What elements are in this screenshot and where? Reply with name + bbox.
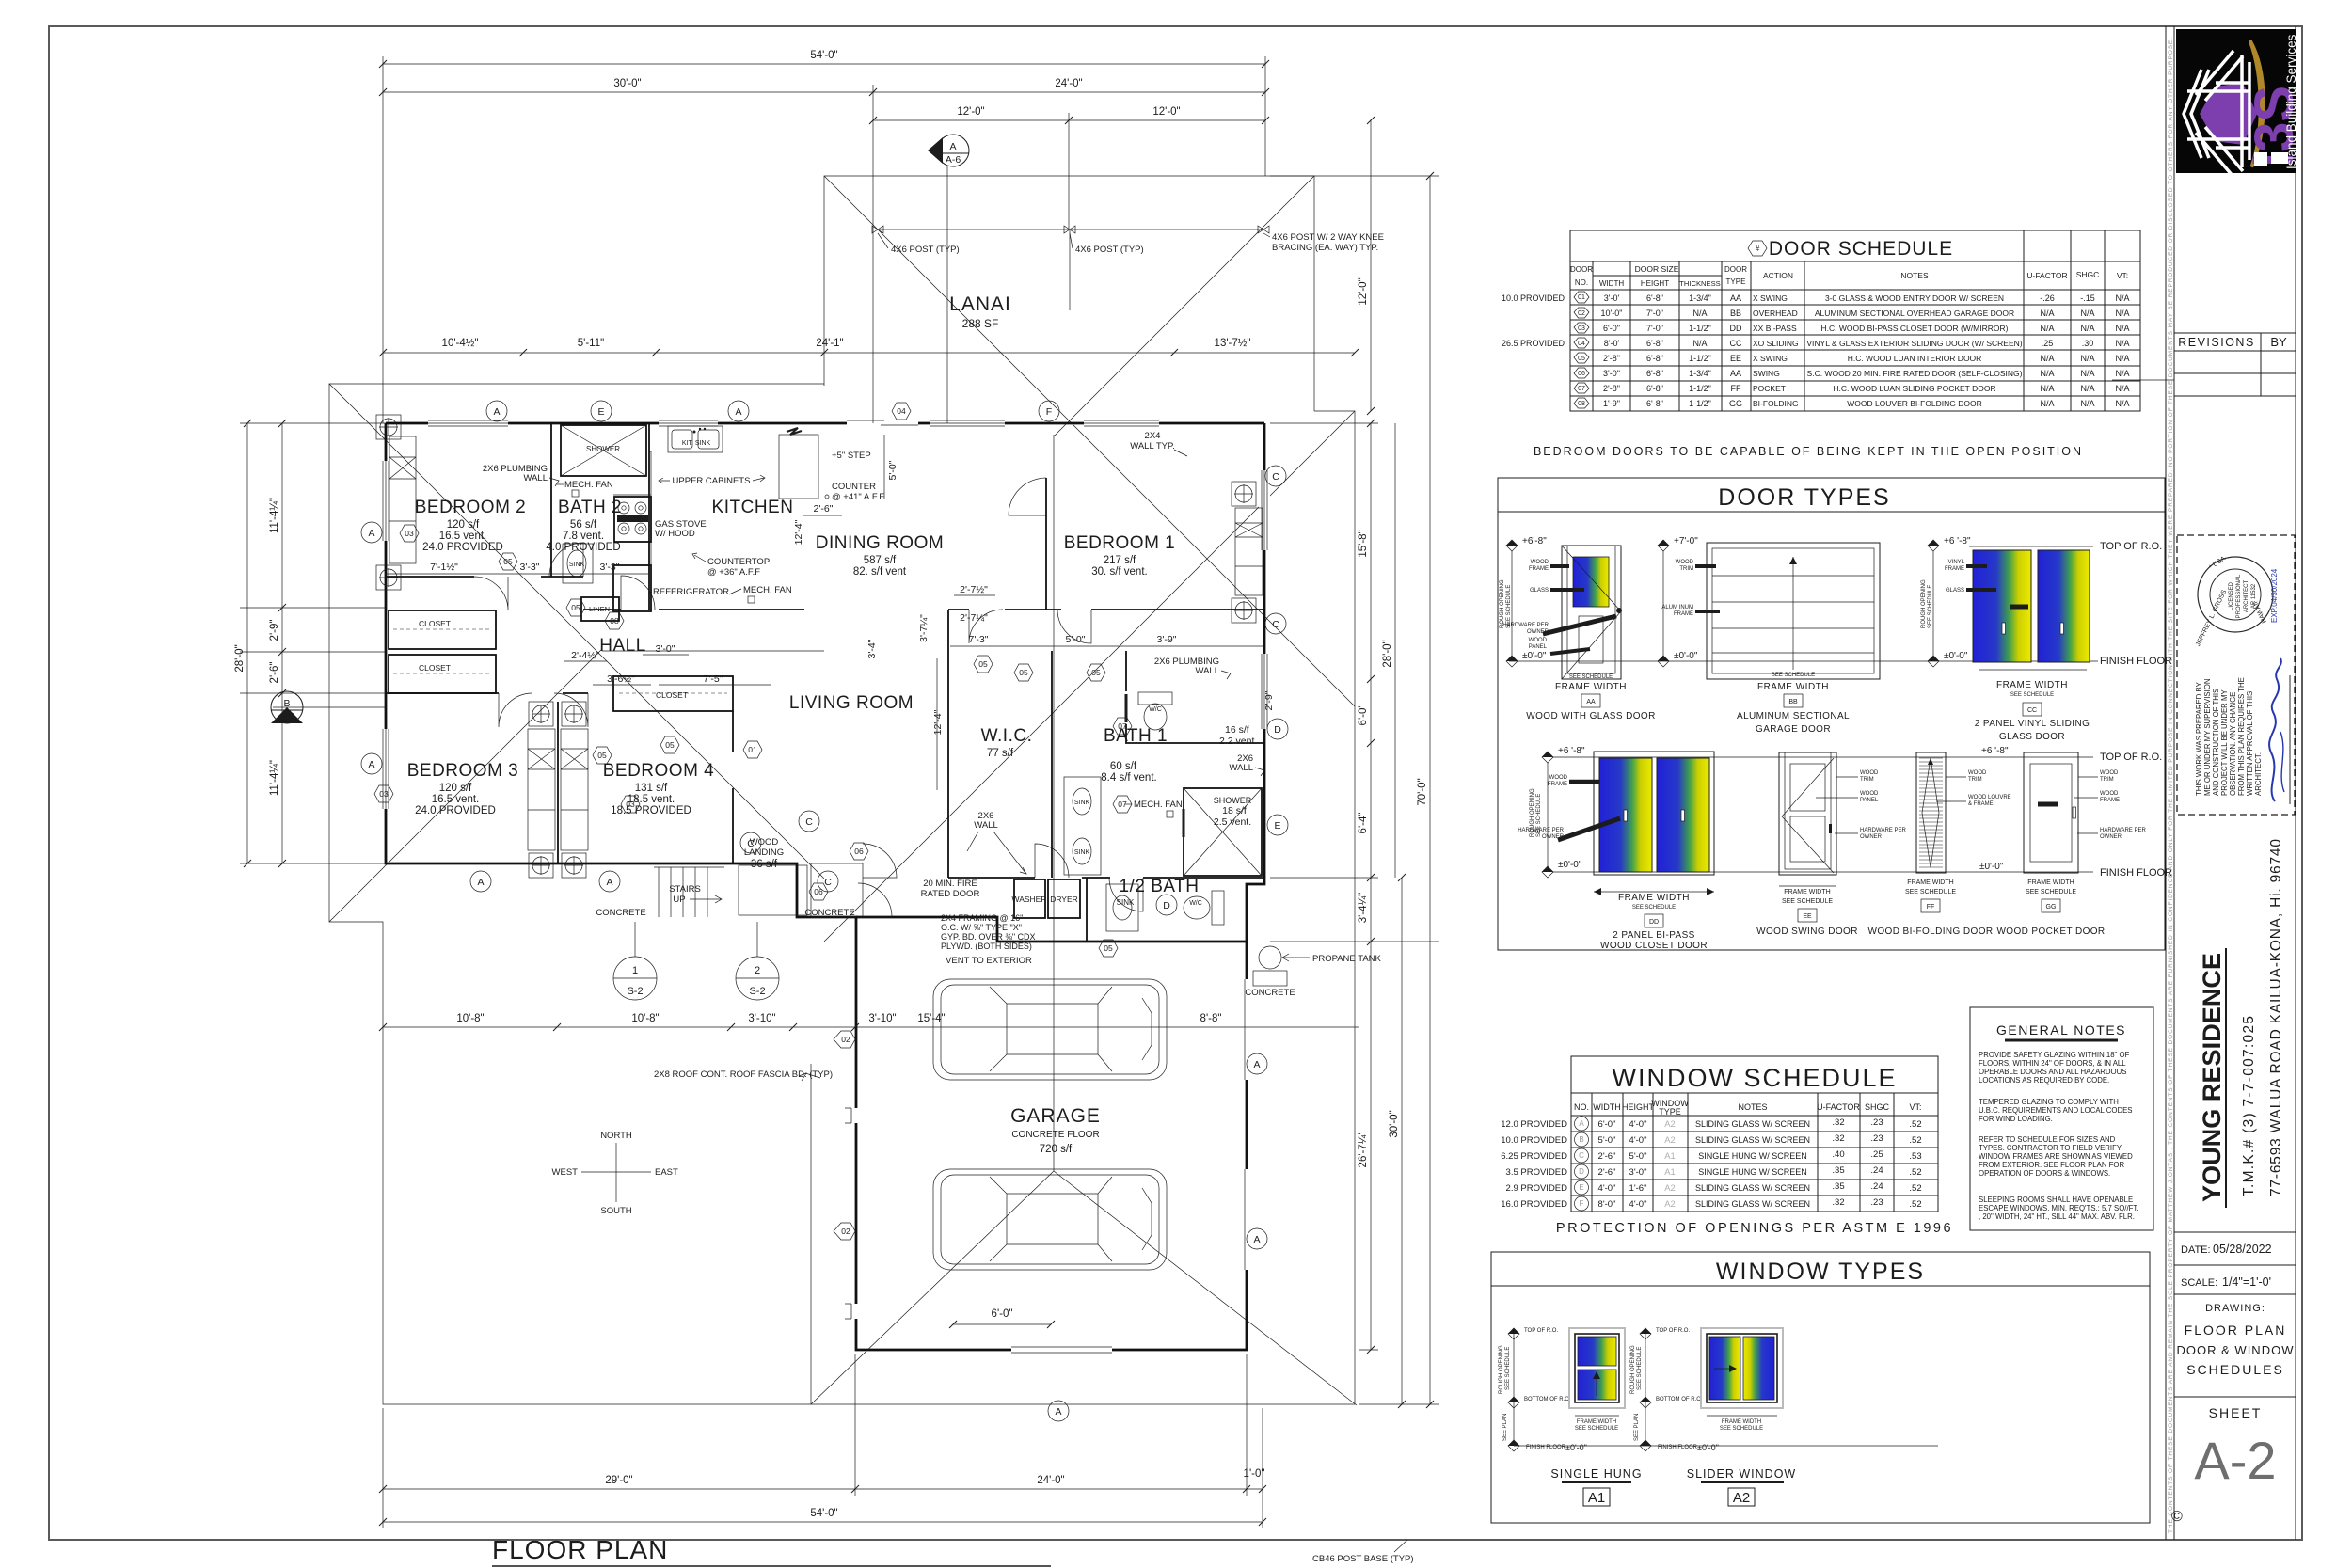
svg-text:MECH. FAN: MECH. FAN	[743, 585, 792, 595]
svg-text:C: C	[824, 877, 832, 888]
bath1 shower	[1184, 788, 1262, 876]
markers garage	[1247, 1053, 1267, 1074]
svg-text:.25: .25	[1870, 1149, 1883, 1160]
svg-text:GARAGE: GARAGE	[1010, 1105, 1101, 1127]
svg-text:W/C: W/C	[1189, 900, 1202, 907]
svg-text:6'-0": 6'-0"	[992, 1308, 1013, 1320]
svg-text:3'-10": 3'-10"	[748, 1013, 775, 1024]
svg-text:30'-0": 30'-0"	[613, 78, 641, 89]
svg-text:ESCAPE WINDOWS. MIN. REQ'TS.:: ESCAPE WINDOWS. MIN. REQ'TS.: 5.7 SQ//FT…	[1979, 1204, 2138, 1212]
hall south wall	[386, 692, 588, 694]
markers right side	[1265, 466, 1286, 486]
svg-text:SINGLE HUNG W/ SCREEN: SINGLE HUNG W/ SCREEN	[1698, 1151, 1807, 1161]
top of RO datum line row2	[1552, 756, 2093, 758]
svg-text:E: E	[1274, 820, 1280, 832]
svg-text:HEIGHT: HEIGHT	[1622, 1102, 1655, 1112]
svg-text:7'-1½": 7'-1½"	[430, 562, 458, 573]
svg-text:2 PANEL VINYL SLIDING: 2 PANEL VINYL SLIDING	[1975, 719, 2090, 729]
bath1 dim row	[950, 645, 1264, 647]
svg-text:LIVING ROOM: LIVING ROOM	[789, 693, 914, 713]
svg-text:02: 02	[1578, 310, 1585, 317]
BR4 bed symbol	[561, 729, 588, 850]
svg-text:HARDWARE PER: HARDWARE PER	[2100, 828, 2146, 833]
svg-text:54'-0": 54'-0"	[810, 50, 837, 61]
svg-text:8'-0': 8'-0'	[1604, 339, 1620, 348]
svg-text:A: A	[1253, 1234, 1260, 1245]
svg-text:2X4 FRAMING @ 16": 2X4 FRAMING @ 16"	[941, 913, 1023, 923]
svg-text:3-0 GLASS & WOOD ENTRY DOOR W/: 3-0 GLASS & WOOD ENTRY DOOR W/ SCREEN	[1825, 293, 2004, 303]
svg-text:6'-8": 6'-8"	[1646, 369, 1663, 378]
svg-text:E: E	[597, 406, 604, 418]
svg-text:SHGC: SHGC	[2076, 270, 2100, 279]
svg-text:, 20" WIDTH, 24" HT., SILL 44": , 20" WIDTH, 24" HT., SILL 44" MAX. ABV.…	[1979, 1212, 2135, 1221]
svg-text:WINDOW FRAMES ARE SHOWN AS VIE: WINDOW FRAMES ARE SHOWN AS VIEWED	[1979, 1152, 2133, 1161]
svg-text:DOOR: DOOR	[1570, 265, 1593, 274]
door type CC 2 panel vinyl sliding glass door	[1921, 536, 2172, 742]
svg-text:ROUGH OPENING: ROUGH OPENING	[1499, 1345, 1504, 1394]
interior wall Bath2/Kitchen	[648, 423, 650, 610]
svg-text:U-FACTOR: U-FACTOR	[1817, 1102, 1860, 1112]
hall north wall	[386, 576, 583, 578]
svg-text:12'-4": 12'-4"	[932, 709, 944, 735]
svg-text:ALUMINUM SECTIONAL: ALUMINUM SECTIONAL	[1737, 711, 1850, 721]
svg-text:SLIDING GLASS W/ SCREEN: SLIDING GLASS W/ SCREEN	[1695, 1199, 1810, 1209]
svg-text:A: A	[368, 759, 374, 770]
svg-text:3'-0": 3'-0"	[1603, 369, 1620, 378]
svg-text:15'-4": 15'-4"	[917, 1013, 945, 1024]
left dimension lines	[246, 423, 248, 863]
svg-text:GG: GG	[1729, 399, 1742, 408]
svg-text:PROPANE TANK: PROPANE TANK	[1312, 954, 1382, 964]
svg-text:N/A: N/A	[2080, 384, 2094, 393]
svg-text:CC: CC	[2027, 707, 2037, 714]
door arc laundry	[1035, 844, 1069, 878]
svg-text:SLEEPING ROOMS SHALL HAVE OPEN: SLEEPING ROOMS SHALL HAVE OPENABLE	[1979, 1196, 2133, 1204]
svg-text:WOOD: WOOD	[1860, 770, 1879, 776]
svg-text:STAIRS: STAIRS	[669, 884, 701, 895]
propane tank	[1259, 946, 1281, 969]
svg-text:SHEET: SHEET	[2209, 1405, 2263, 1420]
svg-text:FROM THIS PLAN REQUIRES THE: FROM THIS PLAN REQUIRES THE	[2237, 677, 2246, 796]
svg-text:BATH 1: BATH 1	[1104, 726, 1168, 746]
svg-text:6'-8": 6'-8"	[1646, 293, 1663, 303]
svg-text:NO.: NO.	[1574, 1102, 1589, 1112]
bottom dimension rows	[383, 1026, 1359, 1028]
svg-text:.52: .52	[1909, 1199, 1921, 1210]
svg-text:2'-6": 2'-6"	[1598, 1151, 1616, 1162]
svg-text:+7'-0": +7'-0"	[1674, 536, 1698, 546]
svg-text:SINK: SINK	[1074, 849, 1090, 856]
svg-text:05: 05	[597, 751, 607, 760]
svg-text:05: 05	[1091, 668, 1101, 677]
svg-text:& FRAME: & FRAME	[1968, 801, 1994, 807]
section marker B/A-6 left	[273, 706, 386, 708]
svg-text:YOUNG RESIDENCE: YOUNG RESIDENCE	[2198, 953, 2226, 1202]
svg-text:1'-6": 1'-6"	[1629, 1183, 1647, 1194]
door arc WIC	[969, 610, 1003, 643]
svg-text:U-FACTOR: U-FACTOR	[2026, 271, 2067, 280]
door schedule table frame	[1570, 230, 2140, 411]
svg-text:KIT. SINK: KIT. SINK	[682, 440, 711, 447]
svg-text:16.0 PROVIDED: 16.0 PROVIDED	[1501, 1199, 1567, 1210]
svg-text:10'-8": 10'-8"	[456, 1013, 484, 1024]
svg-text:N/A: N/A	[2040, 369, 2054, 378]
svg-text:SEE SCHEDULE: SEE SCHEDULE	[1575, 1426, 1618, 1432]
svg-text:1/4"=1'-0': 1/4"=1'-0'	[2222, 1275, 2271, 1289]
svg-text:OBSERVATION. ANY CHANGE: OBSERVATION. ANY CHANGE	[2229, 692, 2237, 796]
DOOR SCHEDULE panel	[1502, 230, 2140, 458]
svg-text:F: F	[1580, 1199, 1584, 1208]
svg-text:OPERATION OF DOORS & WINDOWS.: OPERATION OF DOORS & WINDOWS.	[1979, 1169, 2110, 1178]
kitchen/hall south wall	[583, 609, 804, 610]
svg-text:FF: FF	[1731, 384, 1741, 393]
svg-text:OWNER: OWNER	[1860, 834, 1883, 840]
svg-text:N/A: N/A	[2040, 354, 2054, 363]
svg-text:N/A: N/A	[2115, 384, 2129, 393]
svg-text:4'-0": 4'-0"	[1629, 1119, 1647, 1130]
general notes box	[1970, 1007, 2153, 1230]
svg-text:TOP OF R.O.: TOP OF R.O.	[1656, 1328, 1690, 1334]
kitchen sink	[668, 426, 723, 452]
svg-text:BEDROOM 2: BEDROOM 2	[415, 498, 527, 517]
svg-text:LINEN: LINEN	[589, 605, 610, 613]
svg-text:DD: DD	[1730, 324, 1742, 333]
svg-text:±0'-0": ±0'-0"	[1522, 651, 1547, 661]
svg-text:6'-4": 6'-4"	[1358, 813, 1369, 834]
svg-text:ROUGH OPENING: ROUGH OPENING	[1630, 1345, 1636, 1394]
svg-text:10'-0": 10'-0"	[1601, 309, 1623, 318]
svg-text:.35: .35	[1832, 1165, 1844, 1176]
svg-text:SLIDING GLASS W/ SCREEN: SLIDING GLASS W/ SCREEN	[1695, 1135, 1810, 1145]
bath1 sinks counter	[1064, 777, 1101, 875]
roof valley diagonal NW	[329, 384, 824, 879]
svg-text:PANEL: PANEL	[1529, 644, 1548, 650]
wall grid markers left/bottom	[361, 522, 382, 543]
window type A1 single hung	[1499, 1328, 1643, 1506]
svg-text:7'-5": 7'-5"	[704, 673, 723, 685]
svg-text:29'-0": 29'-0"	[605, 1475, 632, 1486]
svg-text:FROM EXTERIOR. SEE FLOOR PLAN: FROM EXTERIOR. SEE FLOOR PLAN FOR	[1979, 1161, 2124, 1169]
svg-text:77-6593 WALUA ROAD KAILUA-KO: 77-6593 WALUA ROAD KAILUA-KONA, Hi. 9674…	[2268, 839, 2284, 1196]
svg-text:WASHER: WASHER	[1012, 895, 1047, 904]
bath2 shower	[561, 425, 646, 476]
svg-text:HARDWARE PER: HARDWARE PER	[1502, 623, 1549, 628]
window openings top wall	[428, 418, 508, 429]
svg-text:FINISH FLOOR: FINISH FLOOR	[1658, 1445, 1698, 1450]
svg-text:FRAME WIDTH: FRAME WIDTH	[1577, 1419, 1616, 1425]
svg-text:SWING: SWING	[1753, 369, 1780, 378]
svg-text:.32: .32	[1832, 1133, 1844, 1144]
svg-text:28'-0": 28'-0"	[1382, 640, 1393, 667]
svg-text:EE: EE	[1803, 913, 1812, 920]
svg-text:3'-3": 3'-3"	[520, 562, 540, 573]
svg-text:2'-9": 2'-9"	[1263, 690, 1275, 710]
svg-text:TRIM: TRIM	[1968, 777, 1982, 783]
svg-text:08: 08	[1578, 401, 1585, 407]
roof valley from lanai	[824, 176, 1355, 706]
prepared-by statement rotated	[2195, 677, 2263, 796]
svg-text:TEMPERED GLAZING TO COMPLY WIT: TEMPERED GLAZING TO COMPLY WITH	[1979, 1098, 2119, 1106]
svg-text:SHOWER: SHOWER	[1214, 796, 1252, 805]
svg-text:A: A	[368, 528, 374, 539]
svg-text:FLOOR PLAN: FLOOR PLAN	[2185, 1323, 2287, 1338]
door schedule rows	[1570, 304, 2140, 306]
svg-text:2X8 ROOF CONT. ROOF FASCIA BD.: 2X8 ROOF CONT. ROOF FASCIA BD. (TYP)	[654, 1069, 833, 1080]
svg-text:@ +36" A.F.F: @ +36" A.F.F	[707, 567, 760, 578]
svg-text:1-3/4": 1-3/4"	[1689, 369, 1711, 378]
door arc BR2	[474, 577, 508, 610]
svg-text:1-1/2": 1-1/2"	[1689, 399, 1711, 408]
main ridge vertical	[1053, 435, 1055, 1171]
garage car 2	[933, 1169, 1167, 1270]
svg-text:SINGLE HUNG W/ SCREEN: SINGLE HUNG W/ SCREEN	[1698, 1167, 1807, 1177]
svg-text:UP: UP	[673, 895, 685, 905]
door arc bath1	[1057, 610, 1091, 643]
svg-text:3'-7¼": 3'-7¼"	[918, 614, 930, 642]
half bath toilet	[1212, 891, 1224, 925]
architect stamp dashed box	[2177, 535, 2295, 815]
svg-text:Island Building Services: Island Building Services	[2284, 34, 2298, 169]
svg-text:5'-0": 5'-0"	[1598, 1135, 1616, 1146]
svg-text:N/A: N/A	[1692, 339, 1707, 348]
wall grid markers top	[486, 401, 507, 421]
svg-text:2.5 vent.: 2.5 vent.	[1214, 816, 1251, 828]
svg-text:VENT TO EXTERIOR: VENT TO EXTERIOR	[946, 956, 1032, 966]
svg-text:W/C: W/C	[1149, 706, 1162, 713]
svg-text:2'-7¼": 2'-7¼"	[960, 612, 988, 624]
svg-text:05: 05	[1104, 943, 1113, 953]
svg-text:.53: .53	[1909, 1151, 1921, 1162]
svg-text:WOOD BI-FOLDING DOOR: WOOD BI-FOLDING DOOR	[1868, 927, 1994, 937]
svg-text:WOOD CLOSET DOOR: WOOD CLOSET DOOR	[1600, 941, 1708, 951]
svg-text:BOTTOM OF R.O.: BOTTOM OF R.O.	[1656, 1397, 1703, 1402]
svg-text:AA: AA	[1730, 293, 1741, 303]
svg-text:26.5 PROVIDED: 26.5 PROVIDED	[1502, 339, 1565, 348]
svg-text:ALUMINUM SECTIONAL OVERHEAD GA: ALUMINUM SECTIONAL OVERHEAD GARAGE DOOR	[1815, 309, 2014, 318]
half bath sink	[1106, 884, 1138, 931]
svg-text:6'-8": 6'-8"	[1646, 384, 1663, 393]
REVISIONS BY table	[2112, 333, 2296, 396]
svg-text:BB: BB	[1730, 309, 1741, 318]
svg-text:2'-4½": 2'-4½"	[571, 650, 599, 661]
bath2 sink	[563, 544, 593, 583]
svg-text:WOOD: WOOD	[2100, 791, 2119, 797]
svg-text:N/A: N/A	[2040, 309, 2054, 318]
svg-text:1-1/2": 1-1/2"	[1689, 354, 1711, 363]
svg-text:120 s/f: 120 s/f	[447, 519, 480, 531]
svg-text:OPERABLE DOORS AND ALL HAZARDO: OPERABLE DOORS AND ALL HAZARDOUS	[1979, 1068, 2126, 1076]
door type BB aluminum sectional garage door	[1658, 536, 1880, 735]
svg-text:SEE SCHEDULE: SEE SCHEDULE	[1928, 585, 1933, 628]
svg-text:A-6: A-6	[946, 154, 961, 166]
svg-text:COUNTER: COUNTER	[832, 482, 876, 492]
svg-text:ROUGH OPENING: ROUGH OPENING	[1500, 579, 1505, 628]
compass rose	[615, 1143, 617, 1202]
svg-text:SEE SCHEDULE: SEE SCHEDULE	[1905, 889, 1956, 895]
date / scale / drawing rows	[2171, 1232, 2296, 1525]
BR4 closet	[613, 676, 733, 711]
svg-text:1-1/2": 1-1/2"	[1689, 384, 1711, 393]
svg-text:12.0 PROVIDED: 12.0 PROVIDED	[1501, 1119, 1567, 1130]
svg-text:FRAME: FRAME	[1548, 782, 1567, 787]
svg-text:OWNER: OWNER	[2100, 834, 2122, 840]
svg-text:+5" STEP: +5" STEP	[832, 451, 871, 461]
svg-text:08: 08	[610, 616, 619, 626]
svg-text:SHOWER: SHOWER	[586, 445, 620, 453]
gas stove	[614, 497, 651, 542]
svg-text:A: A	[735, 406, 741, 418]
svg-text:587 s/f: 587 s/f	[864, 555, 897, 566]
svg-text:720 s/f: 720 s/f	[1040, 1144, 1073, 1155]
svg-text:24.0 PROVIDED: 24.0 PROVIDED	[415, 805, 496, 816]
svg-text:CLOSET: CLOSET	[656, 690, 688, 700]
WINDOW SCHEDULE + GENERAL NOTES panels	[1501, 1056, 1953, 1236]
svg-text:4.0 PROVIDED: 4.0 PROVIDED	[546, 542, 620, 553]
svg-text:54'-0": 54'-0"	[810, 1508, 837, 1519]
svg-text:C: C	[805, 816, 813, 828]
BR2 window seat symbol	[389, 436, 416, 563]
svg-text:F: F	[1046, 406, 1052, 418]
svg-text:.23: .23	[1870, 1117, 1883, 1128]
lanai hip NE	[1054, 176, 1314, 436]
svg-text:06: 06	[1578, 371, 1585, 377]
DOOR TYPES panel	[1498, 478, 2172, 951]
svg-text:A2: A2	[1664, 1135, 1676, 1146]
svg-text:04: 04	[1578, 341, 1585, 347]
svg-text:PROJECT WILL BE UNDER MY: PROJECT WILL BE UNDER MY	[2220, 689, 2229, 796]
svg-text:W.I.C.: W.I.C.	[981, 726, 1033, 746]
refrigerator	[613, 565, 651, 611]
roof hip diagonal SW	[329, 649, 602, 922]
svg-text:06: 06	[854, 847, 864, 856]
svg-text:WOOD: WOOD	[750, 837, 779, 847]
svg-text:E: E	[1579, 1183, 1583, 1192]
svg-text:VINYL: VINYL	[1948, 560, 1965, 565]
svg-text:SEE SCHEDULE: SEE SCHEDULE	[1720, 1426, 1763, 1432]
svg-text:S-2: S-2	[627, 986, 643, 997]
svg-text:FRAME WIDTH: FRAME WIDTH	[1784, 889, 1830, 895]
svg-text:WOOD LOUVER BI-FOLDING DOOR: WOOD LOUVER BI-FOLDING DOOR	[1847, 399, 1982, 408]
svg-text:.52: .52	[1909, 1183, 1921, 1194]
door type GG wood pocket door	[1996, 752, 2146, 937]
svg-text:FINISH FLOOR: FINISH FLOOR	[2100, 656, 2172, 667]
svg-text:15'-8": 15'-8"	[1358, 530, 1369, 557]
sliding door opening dining top	[847, 418, 918, 429]
door arc entry	[863, 844, 897, 878]
white chevron	[2184, 51, 2250, 177]
BR4 east wall	[732, 711, 734, 863]
title block column	[2112, 26, 2305, 1540]
svg-text:+6 '-8": +6 '-8"	[1981, 746, 2009, 756]
svg-text:ME OR UNDER MY SUPERVISION: ME OR UNDER MY SUPERVISION	[2203, 679, 2212, 796]
svg-text:THE CONTENTS OF THESE DOCUMENT: THE CONTENTS OF THESE DOCUMENTS ARE AND …	[2168, 38, 2174, 1533]
svg-text:6'-0": 6'-0"	[1603, 324, 1620, 333]
svg-text:W/ HOOD: W/ HOOD	[655, 529, 695, 539]
svg-text:ARCHITECT.: ARCHITECT.	[2254, 752, 2263, 796]
svg-text:DD: DD	[1649, 919, 1659, 926]
svg-text:6'-0": 6'-0"	[1358, 705, 1369, 726]
svg-text:N/A: N/A	[2080, 309, 2094, 318]
svg-text:PROTECTION OF OPENINGS PER AST: PROTECTION OF OPENINGS PER ASTM E 1996	[1556, 1221, 1953, 1236]
svg-text:SINK: SINK	[569, 562, 585, 568]
svg-text:07: 07	[1578, 386, 1585, 392]
svg-text:FRAME WIDTH: FRAME WIDTH	[1618, 893, 1690, 903]
svg-text:SLIDER WINDOW: SLIDER WINDOW	[1687, 1467, 1796, 1481]
mid dimension row under lanai	[383, 352, 1355, 354]
svg-text:XX BI-PASS: XX BI-PASS	[1753, 324, 1797, 333]
svg-text:05: 05	[1578, 356, 1585, 362]
svg-text:FOR WIND LOADING.: FOR WIND LOADING.	[1979, 1115, 2053, 1123]
svg-text:DRYER: DRYER	[1050, 895, 1078, 904]
svg-text:04: 04	[897, 406, 906, 416]
svg-text:.52: .52	[1909, 1135, 1921, 1146]
door schedule title	[1748, 241, 1767, 256]
svg-text:H.C. WOOD BI-PASS CLOSET DOOR: H.C. WOOD BI-PASS CLOSET DOOR (W/MIRROR)	[1821, 324, 2009, 333]
lanai center post line	[1069, 230, 1071, 310]
svg-text:-.26: -.26	[2040, 293, 2055, 303]
svg-text:11'-4¼": 11'-4¼"	[269, 760, 280, 796]
svg-text:BEDROOM 4: BEDROOM 4	[603, 761, 715, 781]
BR3/BR4 divider wall	[557, 702, 559, 863]
svg-text:SEE SCHEDULE: SEE SCHEDULE	[1505, 1347, 1511, 1390]
svg-text:NOTES: NOTES	[1900, 271, 1929, 280]
svg-text:FRAME: FRAME	[1945, 566, 1964, 572]
svg-text:N/A: N/A	[2115, 293, 2129, 303]
svg-text:N/A: N/A	[2115, 399, 2129, 408]
garage door openings right wall	[1242, 979, 1251, 1080]
svg-text:.52: .52	[1909, 1167, 1921, 1178]
door arc garage fire door	[858, 883, 892, 917]
BR1 south wall	[948, 609, 1264, 610]
svg-text:±0'-0": ±0'-0"	[1697, 1443, 1719, 1452]
svg-text:16.5 vent.: 16.5 vent.	[432, 794, 480, 805]
garage roof fascia line	[810, 1064, 812, 1404]
svg-text:GENERAL NOTES: GENERAL NOTES	[1996, 1022, 2126, 1037]
svg-text:+6'-8": +6'-8"	[1522, 536, 1547, 546]
svg-text:A2: A2	[1733, 1490, 1750, 1506]
svg-text:DATE:: DATE:	[2181, 1244, 2211, 1256]
door types panel frame	[1498, 478, 2165, 950]
WIC west wall	[947, 610, 949, 878]
garage north walls	[856, 917, 1247, 942]
svg-text:ACTION: ACTION	[1763, 271, 1793, 280]
svg-text:GLASS DOOR: GLASS DOOR	[1999, 732, 2065, 742]
svg-text:2X4: 2X4	[1145, 431, 1161, 441]
svg-text:D: D	[1274, 724, 1281, 736]
svg-text:BEDROOM 1: BEDROOM 1	[1064, 533, 1176, 553]
svg-text:1'-9": 1'-9"	[1603, 399, 1620, 408]
svg-text:BATH 2: BATH 2	[558, 498, 622, 517]
garage hip SE	[1054, 1171, 1357, 1405]
svg-text:VINYL & GLASS EXTERIOR SLIDING: VINYL & GLASS EXTERIOR SLIDING DOOR (W/ …	[1806, 339, 2022, 348]
dining/BR1 wall	[1045, 478, 1047, 610]
svg-text:70'-0": 70'-0"	[1417, 778, 1428, 805]
svg-text:N/A: N/A	[2115, 369, 2129, 378]
svg-text:12'-0": 12'-0"	[1152, 106, 1180, 118]
svg-text:SEE PLAN: SEE PLAN	[1634, 1414, 1640, 1441]
svg-text:S-2: S-2	[749, 986, 765, 997]
svg-text:S.C. WOOD 20 MIN. FIRE RATED D: S.C. WOOD 20 MIN. FIRE RATED DOOR (SELF-…	[1807, 369, 2023, 378]
svg-text:DOOR SIZE: DOOR SIZE	[1635, 264, 1679, 274]
svg-text:SEE SCHEDULE: SEE SCHEDULE	[1632, 905, 1676, 911]
purple hexagon	[2200, 83, 2257, 145]
svg-text:6.25 PROVIDED: 6.25 PROVIDED	[1501, 1151, 1567, 1162]
roof ridge bedroom wing	[602, 650, 824, 652]
svg-text:A: A	[949, 141, 956, 152]
svg-text:5'-0": 5'-0"	[887, 460, 898, 480]
dim extension lines top	[382, 56, 384, 423]
svg-text:WIDTH: WIDTH	[1599, 279, 1624, 288]
